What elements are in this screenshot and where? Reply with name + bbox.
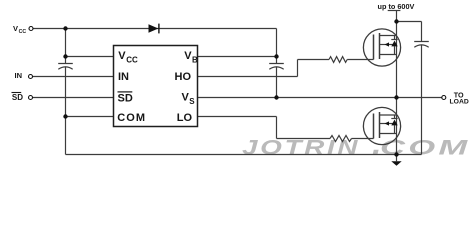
wire VB bbox=[198, 56, 277, 58]
IC U1 gate driver box bbox=[114, 46, 198, 127]
svg-text:CC: CC bbox=[19, 29, 27, 35]
terminal TO LOAD bbox=[442, 96, 446, 100]
watermark JOTRIN.COM bbox=[242, 136, 470, 160]
capacitor C3 bottom lead bbox=[421, 44, 423, 154]
diode D1 bootstrap bbox=[149, 24, 159, 34]
node dot VB bbox=[274, 54, 278, 58]
capacitor C2 plates bbox=[269, 64, 284, 70]
wire COM to IC and down to rail bbox=[66, 117, 422, 155]
wire HV bus vertical bbox=[396, 11, 398, 155]
node dot Vcc/IC bbox=[63, 54, 67, 58]
svg-text:up to 600V: up to 600V bbox=[378, 2, 415, 11]
wire R1 to Q1 gate bbox=[347, 59, 373, 61]
wire branch to bus capacitor bbox=[397, 22, 422, 42]
node dot Vcc/rail bbox=[63, 26, 67, 30]
transistor Q1 high-side MOSFET bbox=[363, 29, 400, 66]
capacitor C3 plates bbox=[414, 42, 429, 48]
wire SD bbox=[33, 97, 114, 99]
wire HV bar top bbox=[388, 10, 401, 12]
terminal Vcc bbox=[29, 27, 33, 31]
resistor R1 high-side gate bbox=[329, 57, 347, 63]
terminal IN bbox=[29, 75, 33, 79]
svg-text:LOAD: LOAD bbox=[450, 99, 469, 106]
wire Vcc rail top bbox=[33, 29, 277, 57]
svg-text:IN: IN bbox=[15, 71, 23, 80]
wire Vcc drop to IC bbox=[66, 29, 114, 57]
node dot midpoint bbox=[394, 95, 398, 99]
wire IN bbox=[33, 76, 114, 78]
wire HO jog bbox=[198, 60, 330, 77]
wire ground stub bbox=[396, 155, 398, 162]
svg-text:B: B bbox=[192, 56, 198, 65]
wire LO jog bbox=[198, 117, 331, 139]
wire VS to load bbox=[198, 97, 442, 99]
transistor Q2 low-side MOSFET bbox=[363, 107, 400, 144]
svg-text:HO: HO bbox=[175, 71, 192, 83]
svg-text:V: V bbox=[118, 50, 126, 62]
node dot HV bus bbox=[394, 19, 398, 23]
svg-text:JOTRIN: JOTRIN bbox=[242, 136, 360, 160]
node dot ground rail bbox=[394, 152, 398, 156]
node dot VS bbox=[274, 95, 278, 99]
svg-text:IN: IN bbox=[118, 71, 129, 83]
svg-text:COM: COM bbox=[380, 136, 470, 160]
capacitor C2 leads bbox=[276, 57, 278, 98]
resistor R2 low-side gate bbox=[330, 136, 352, 142]
svg-text:S: S bbox=[189, 97, 195, 106]
node dot COM bbox=[63, 114, 67, 118]
svg-text:CC: CC bbox=[126, 56, 138, 65]
svg-text:SD: SD bbox=[12, 93, 23, 102]
svg-text:V: V bbox=[13, 24, 18, 33]
ground bbox=[391, 161, 401, 166]
wire R2 to Q2 gate bbox=[352, 138, 374, 140]
svg-text:SD: SD bbox=[118, 92, 133, 104]
capacitor C1 vertical leads bbox=[65, 57, 67, 117]
svg-text:COM: COM bbox=[117, 112, 146, 124]
svg-text:LO: LO bbox=[177, 112, 193, 124]
capacitor C1 plates bbox=[58, 64, 73, 70]
terminal SD bbox=[29, 96, 33, 100]
